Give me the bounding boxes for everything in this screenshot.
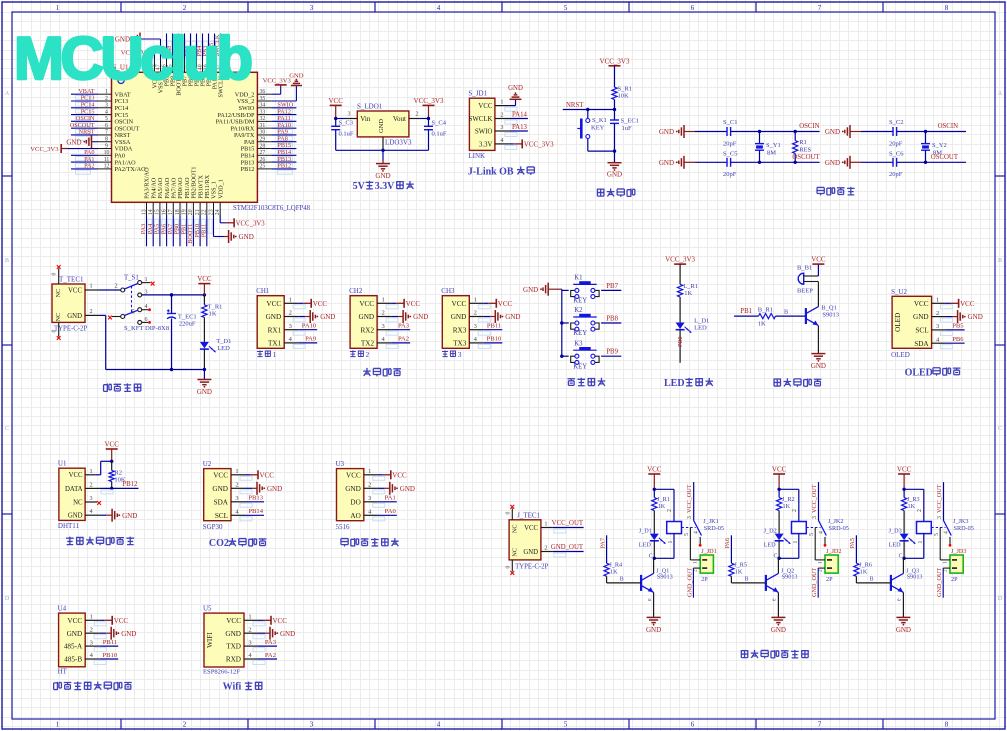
svg-text:SDA: SDA	[214, 498, 229, 506]
svg-text:20pF: 20pF	[723, 171, 737, 178]
svg-text:2P: 2P	[951, 576, 958, 583]
svg-text:RX2: RX2	[361, 326, 375, 334]
svg-text:NC: NC	[512, 524, 519, 533]
svg-text:1: 1	[56, 721, 60, 729]
svg-text:LED: LED	[664, 378, 685, 389]
svg-text:J_JD1: J_JD1	[701, 548, 716, 555]
svg-text:GND: GND	[825, 128, 840, 136]
svg-text:GND_OUT: GND_OUT	[811, 568, 818, 597]
svg-text:1: 1	[273, 350, 277, 359]
svg-text:NRST: NRST	[566, 102, 584, 109]
svg-text:VCC_OUT: VCC_OUT	[552, 520, 584, 527]
svg-text:GND: GND	[122, 512, 137, 520]
svg-text:J_R2: J_R2	[782, 496, 795, 503]
svg-text:NC: NC	[55, 289, 62, 298]
svg-text:PB13: PB13	[248, 495, 263, 502]
svg-text:4: 4	[437, 4, 441, 12]
svg-text:1: 1	[56, 4, 60, 12]
svg-text:1: 1	[544, 521, 547, 528]
svg-text:S_Y1: S_Y1	[766, 142, 781, 149]
svg-text:7: 7	[818, 4, 822, 12]
svg-text:C: C	[649, 554, 653, 560]
svg-text:J_R1: J_R1	[657, 496, 670, 503]
svg-text:TX2: TX2	[361, 340, 375, 348]
svg-text:R1: R1	[799, 139, 807, 146]
svg-text:GND: GND	[523, 549, 538, 556]
svg-text:GND: GND	[359, 313, 375, 321]
svg-text:D: D	[998, 596, 1003, 602]
svg-text:1: 1	[936, 297, 939, 304]
svg-text:2: 2	[114, 283, 117, 290]
svg-text:VDD_1: VDD_1	[217, 179, 224, 199]
svg-text:KEY: KEY	[573, 330, 587, 337]
svg-text:3: 3	[458, 350, 462, 359]
svg-text:2P: 2P	[826, 576, 833, 583]
svg-text:GND: GND	[508, 85, 523, 92]
svg-text:1: 1	[818, 561, 824, 564]
svg-text:VCC_3V3: VCC_3V3	[30, 146, 59, 153]
svg-text:GND: GND	[523, 286, 538, 294]
svg-text:B_B1: B_B1	[797, 265, 812, 272]
svg-text:0: 0	[52, 272, 58, 275]
svg-text:1K: 1K	[783, 503, 791, 510]
svg-text:VCC: VCC	[647, 466, 662, 474]
svg-text:S_R1: S_R1	[618, 86, 632, 93]
svg-text:1K: 1K	[758, 321, 766, 328]
svg-text:GND: GND	[345, 485, 361, 493]
svg-text:PA13: PA13	[512, 124, 527, 131]
svg-text:1K: 1K	[860, 569, 868, 576]
svg-text:20pF: 20pF	[889, 141, 903, 148]
svg-text:PA2: PA2	[398, 336, 409, 343]
svg-text:GND: GND	[378, 119, 385, 133]
svg-text:8: 8	[945, 721, 949, 729]
svg-text:VCC_3V3: VCC_3V3	[524, 141, 554, 149]
svg-text:SRD-05: SRD-05	[954, 525, 974, 532]
svg-text:1K: 1K	[209, 311, 217, 318]
svg-text:1K: 1K	[610, 569, 618, 576]
svg-text:U1: U1	[58, 460, 67, 468]
svg-text:VCC: VCC	[114, 617, 129, 625]
svg-text:KEY: KEY	[591, 125, 605, 132]
svg-text:3: 3	[936, 323, 939, 330]
svg-text:GND: GND	[505, 313, 520, 321]
svg-text:VCC: VCC	[67, 617, 82, 625]
svg-text:4: 4	[944, 531, 950, 534]
svg-text:B: B	[620, 577, 624, 583]
svg-text:TXD: TXD	[226, 643, 241, 651]
svg-text:1uF: 1uF	[622, 125, 633, 132]
svg-text:GND: GND	[266, 313, 282, 321]
svg-text:485-A: 485-A	[64, 643, 83, 651]
svg-text:4: 4	[90, 508, 93, 515]
svg-text:LINK: LINK	[468, 152, 485, 160]
svg-text:DHT11: DHT11	[58, 522, 80, 530]
svg-text:DO: DO	[350, 498, 360, 506]
svg-text:3: 3	[474, 323, 477, 330]
svg-text:SRD-05: SRD-05	[829, 525, 849, 532]
svg-text:Vin: Vin	[360, 115, 371, 123]
svg-text:J_JD3: J_JD3	[951, 548, 966, 555]
svg-text:L_D1: L_D1	[694, 318, 709, 325]
svg-text:LDO3V3: LDO3V3	[385, 139, 412, 147]
svg-text:485-B: 485-B	[64, 656, 82, 664]
svg-text:SCL: SCL	[215, 512, 228, 520]
svg-text:NRST: NRST	[79, 129, 95, 136]
svg-text:SCL: SCL	[915, 327, 928, 335]
svg-text:3: 3	[90, 495, 93, 502]
svg-text:3: 3	[235, 495, 238, 502]
svg-text:J_R4: J_R4	[609, 562, 622, 569]
svg-text:1: 1	[248, 614, 251, 621]
svg-text:VCC_3V3: VCC_3V3	[263, 77, 292, 84]
svg-text:PA3: PA3	[398, 323, 410, 330]
svg-text:20pF: 20pF	[723, 141, 737, 148]
svg-text:GND: GND	[280, 630, 295, 638]
svg-text:1: 1	[235, 468, 238, 475]
svg-text:PB1: PB1	[740, 308, 752, 315]
svg-text:VCC: VCC	[498, 300, 513, 308]
svg-text:S_U2: S_U2	[891, 288, 907, 296]
svg-text:3: 3	[500, 124, 503, 131]
svg-text:KEY: KEY	[573, 298, 587, 305]
svg-text:PA2: PA2	[265, 652, 276, 659]
svg-text:3: 3	[90, 639, 93, 646]
svg-text:B_R1: B_R1	[758, 307, 773, 314]
svg-text:3: 3	[289, 323, 292, 330]
svg-text:B: B	[784, 309, 788, 316]
svg-text:S_Y2: S_Y2	[932, 142, 947, 149]
svg-text:4: 4	[819, 531, 825, 534]
svg-text:0.1uF: 0.1uF	[432, 131, 447, 138]
svg-text:B: B	[870, 577, 874, 583]
svg-text:VCC: VCC	[273, 617, 288, 625]
svg-text:e: e	[647, 598, 653, 601]
svg-text:PA10: PA10	[302, 323, 317, 330]
svg-text:LED: LED	[764, 542, 777, 549]
svg-text:J_TEC1: J_TEC1	[517, 511, 540, 519]
svg-text:S_C3: S_C3	[339, 120, 353, 127]
svg-text:8M: 8M	[767, 150, 776, 157]
svg-text:2: 2	[235, 482, 238, 489]
svg-text:VCC: VCC	[197, 275, 212, 283]
svg-text:2: 2	[917, 509, 923, 512]
svg-text:GND: GND	[121, 630, 136, 638]
svg-text:GND: GND	[225, 630, 241, 638]
svg-text:S_LDO1: S_LDO1	[357, 103, 383, 111]
svg-text:GND: GND	[197, 388, 212, 396]
svg-text:3: 3	[687, 516, 693, 519]
svg-text:S_C4: S_C4	[432, 120, 447, 127]
svg-text:2: 2	[183, 721, 187, 729]
svg-text:T_D1: T_D1	[216, 338, 231, 345]
svg-text:Wifi: Wifi	[223, 682, 242, 693]
svg-text:PA6: PA6	[724, 538, 731, 548]
svg-text:T_S1: T_S1	[124, 275, 139, 282]
svg-text:VCC: VCC	[960, 300, 975, 308]
svg-text:2: 2	[248, 626, 251, 633]
svg-text:J-Link OB: J-Link OB	[468, 167, 514, 178]
svg-text:4: 4	[500, 137, 503, 144]
svg-text:PB14: PB14	[248, 508, 263, 515]
svg-text:1: 1	[793, 541, 799, 544]
svg-text:RX3: RX3	[453, 326, 467, 334]
svg-text:CH2: CH2	[349, 287, 363, 295]
svg-text:OSCOUT: OSCOUT	[792, 154, 820, 161]
svg-text:SRD-05: SRD-05	[704, 525, 724, 532]
svg-text:1: 1	[289, 297, 292, 304]
svg-text:5: 5	[809, 533, 815, 536]
svg-text:3.3V: 3.3V	[479, 141, 492, 148]
svg-text:1: 1	[693, 561, 699, 564]
svg-text:PA0: PA0	[385, 508, 397, 515]
svg-text:GND: GND	[66, 138, 81, 146]
svg-text:A: A	[998, 91, 1003, 97]
svg-text:VCC: VCC	[260, 471, 275, 479]
svg-text:S9013: S9013	[822, 312, 839, 319]
svg-text:NC: NC	[55, 313, 62, 322]
svg-text:GND: GND	[913, 313, 929, 321]
svg-text:3: 3	[368, 495, 371, 502]
svg-text:CH3: CH3	[441, 287, 455, 295]
svg-text:VCC_OUT: VCC_OUT	[686, 484, 693, 513]
svg-text:GND: GND	[67, 630, 83, 638]
svg-text:4: 4	[694, 531, 700, 534]
svg-text:VCC_3V3: VCC_3V3	[600, 57, 630, 65]
svg-text:PB10: PB10	[487, 336, 502, 343]
svg-text:3: 3	[310, 4, 314, 12]
svg-text:5: 5	[934, 533, 940, 536]
svg-text:CH1: CH1	[256, 287, 270, 295]
svg-text:VCC: VCC	[213, 471, 228, 479]
svg-text:LED: LED	[217, 345, 230, 352]
svg-text:3: 3	[347, 111, 350, 118]
svg-text:B_Q1: B_Q1	[821, 305, 837, 312]
svg-text:GND: GND	[825, 159, 840, 167]
svg-text:5: 5	[564, 721, 568, 729]
svg-text:4: 4	[437, 721, 441, 729]
svg-text:VCC: VCC	[811, 256, 826, 264]
svg-text:K1: K1	[574, 275, 582, 282]
svg-text:L_R1: L_R1	[683, 283, 698, 290]
svg-text:PA2/TX/AO: PA2/TX/AO	[115, 166, 147, 173]
svg-text:PB11: PB11	[201, 224, 208, 238]
svg-text:S9013: S9013	[907, 574, 923, 581]
svg-text:8: 8	[945, 4, 949, 12]
svg-text:VCC: VCC	[266, 300, 281, 308]
svg-text:STM32F103C8T6_LQFP48: STM32F103C8T6_LQFP48	[233, 205, 311, 212]
svg-text:0: 0	[506, 511, 512, 514]
svg-text:2: 2	[381, 310, 384, 317]
svg-text:5516: 5516	[336, 523, 351, 531]
svg-text:GND: GND	[267, 485, 282, 493]
svg-text:1: 1	[90, 468, 93, 475]
svg-text:1: 1	[918, 541, 924, 544]
svg-text:VCC: VCC	[359, 300, 374, 308]
svg-text:B: B	[745, 577, 749, 583]
svg-text:5: 5	[684, 533, 690, 536]
svg-text:R2: R2	[114, 470, 122, 477]
svg-text:220uF: 220uF	[179, 321, 196, 328]
svg-text:J_R5: J_R5	[734, 562, 747, 569]
svg-text:5: 5	[131, 309, 134, 316]
svg-text:J_D3: J_D3	[889, 528, 902, 535]
svg-text:PB12: PB12	[241, 166, 255, 173]
svg-text:VCC: VCC	[452, 300, 467, 308]
svg-text:J_D1: J_D1	[639, 528, 652, 535]
svg-text:6: 6	[691, 4, 695, 12]
svg-text:PA7: PA7	[599, 538, 606, 548]
svg-text:2: 2	[415, 111, 418, 118]
svg-text:3: 3	[248, 639, 251, 646]
svg-text:VCC_3V3: VCC_3V3	[665, 256, 695, 264]
svg-text:OSCIN: OSCIN	[799, 123, 819, 130]
svg-text:2: 2	[936, 310, 939, 317]
svg-text:S_K1: S_K1	[592, 117, 607, 124]
svg-text:PB7: PB7	[606, 283, 618, 290]
svg-text:J_JK3: J_JK3	[953, 518, 968, 525]
svg-text:T_R1: T_R1	[208, 304, 223, 311]
svg-text:GND: GND	[451, 313, 467, 321]
svg-text:J_JD2: J_JD2	[826, 548, 841, 555]
svg-text:AO: AO	[350, 512, 360, 520]
svg-text:2: 2	[289, 310, 292, 317]
svg-text:e: e	[772, 598, 778, 601]
svg-text:1: 1	[668, 541, 674, 544]
svg-text:1K: 1K	[658, 503, 666, 510]
svg-text:J_R6: J_R6	[859, 562, 872, 569]
svg-text:1: 1	[381, 297, 384, 304]
svg-text:GND: GND	[67, 313, 82, 320]
svg-text:D: D	[5, 596, 10, 602]
svg-text:1K: 1K	[908, 503, 916, 510]
svg-text:VCC: VCC	[478, 103, 492, 110]
svg-text:3.3V: 3.3V	[375, 181, 395, 192]
svg-text:U5: U5	[203, 605, 212, 613]
svg-text:OSCOUT: OSCOUT	[931, 154, 959, 161]
svg-text:SWIO: SWIO	[475, 128, 492, 135]
svg-text:B: B	[5, 258, 9, 264]
svg-text:PA5: PA5	[849, 538, 856, 548]
svg-text:U2: U2	[203, 460, 212, 468]
svg-text:S_C6: S_C6	[889, 151, 904, 158]
svg-text:ESP8266-12F: ESP8266-12F	[203, 669, 240, 676]
svg-text:2: 2	[90, 481, 93, 488]
svg-text:2: 2	[667, 509, 673, 512]
svg-text:GND: GND	[413, 313, 428, 321]
svg-text:OLED: OLED	[891, 351, 910, 359]
svg-text:GND: GND	[289, 73, 304, 80]
svg-text:VCC: VCC	[772, 466, 787, 474]
svg-text:GND: GND	[646, 626, 661, 634]
svg-text:VCC: VCC	[406, 300, 421, 308]
svg-text:10K: 10K	[618, 93, 630, 100]
svg-text:PB12: PB12	[122, 481, 138, 488]
svg-text:1: 1	[474, 297, 477, 304]
svg-text:LED: LED	[694, 325, 707, 332]
svg-text:RXD: RXD	[226, 656, 241, 664]
svg-text:2: 2	[500, 112, 503, 119]
svg-text:TYPE-C-2P: TYPE-C-2P	[515, 563, 548, 570]
svg-text:S_JD1: S_JD1	[468, 90, 487, 98]
svg-text:T_TEC1: T_TEC1	[59, 276, 84, 284]
svg-text:TX1: TX1	[268, 340, 282, 348]
svg-text:3: 3	[310, 721, 314, 729]
svg-text:VCC: VCC	[524, 525, 538, 532]
svg-text:GND: GND	[68, 513, 83, 520]
svg-text:2: 2	[792, 509, 798, 512]
svg-text:U3: U3	[336, 460, 345, 468]
svg-text:PB0: PB0	[677, 336, 684, 347]
svg-text:VCC: VCC	[914, 300, 929, 308]
svg-text:C: C	[774, 554, 778, 560]
svg-text:VCC_3V3: VCC_3V3	[414, 97, 444, 105]
svg-text:RES: RES	[799, 147, 811, 154]
svg-text:VCC: VCC	[346, 471, 361, 479]
svg-text:PA9: PA9	[305, 336, 317, 343]
svg-text:GND: GND	[320, 313, 335, 321]
svg-text:NC: NC	[512, 548, 519, 557]
svg-text:A: A	[5, 91, 10, 97]
svg-text:VCC: VCC	[69, 472, 83, 479]
svg-text:PB11: PB11	[487, 323, 501, 330]
svg-text:BEEP: BEEP	[797, 288, 813, 295]
svg-text:GND_OUT: GND_OUT	[551, 544, 584, 551]
svg-text:2: 2	[544, 545, 547, 552]
svg-text:RX1: RX1	[268, 326, 282, 334]
svg-text:SDA: SDA	[914, 340, 929, 348]
svg-text:MCUclub: MCUclub	[14, 25, 254, 92]
svg-text:GND: GND	[659, 128, 674, 136]
svg-text:GND: GND	[607, 171, 622, 179]
svg-text:1K: 1K	[684, 290, 692, 297]
svg-text:GND_OUT: GND_OUT	[686, 568, 693, 597]
svg-text:GND: GND	[212, 485, 228, 493]
svg-text:K3: K3	[574, 340, 583, 347]
svg-text:1K: 1K	[735, 569, 743, 576]
svg-text:J_JK1: J_JK1	[703, 518, 718, 525]
svg-text:2: 2	[183, 4, 187, 12]
svg-text:PB8: PB8	[606, 315, 618, 322]
svg-text:20pF: 20pF	[889, 171, 903, 178]
svg-text:VCC_3V3: VCC_3V3	[236, 220, 266, 227]
svg-text:J_JK2: J_JK2	[828, 518, 843, 525]
svg-text:VCC: VCC	[68, 288, 82, 295]
svg-text:6: 6	[691, 721, 695, 729]
svg-text:SWCLK: SWCLK	[469, 116, 493, 123]
svg-text:2: 2	[474, 310, 477, 317]
svg-text:VCC: VCC	[328, 97, 343, 105]
svg-text:5: 5	[564, 4, 568, 12]
svg-text:1: 1	[89, 283, 92, 290]
svg-text:U4: U4	[58, 605, 67, 613]
svg-text:NC: NC	[73, 499, 83, 506]
svg-text:J_R3: J_R3	[907, 496, 920, 503]
svg-text:2: 2	[89, 308, 92, 315]
svg-text:3: 3	[812, 516, 818, 519]
svg-text:HT: HT	[58, 668, 68, 676]
svg-text:C: C	[5, 426, 9, 432]
svg-text:GND: GND	[375, 172, 390, 180]
svg-text:VCC_OUT: VCC_OUT	[936, 484, 943, 513]
svg-text:KEY: KEY	[573, 363, 587, 370]
svg-text:2: 2	[368, 482, 371, 489]
svg-text:S9013: S9013	[657, 574, 673, 581]
svg-text:5V: 5V	[353, 181, 366, 192]
svg-text:T_EC1: T_EC1	[178, 314, 197, 321]
svg-text:OSCIN: OSCIN	[938, 123, 958, 130]
svg-text:S_C2: S_C2	[889, 119, 903, 126]
